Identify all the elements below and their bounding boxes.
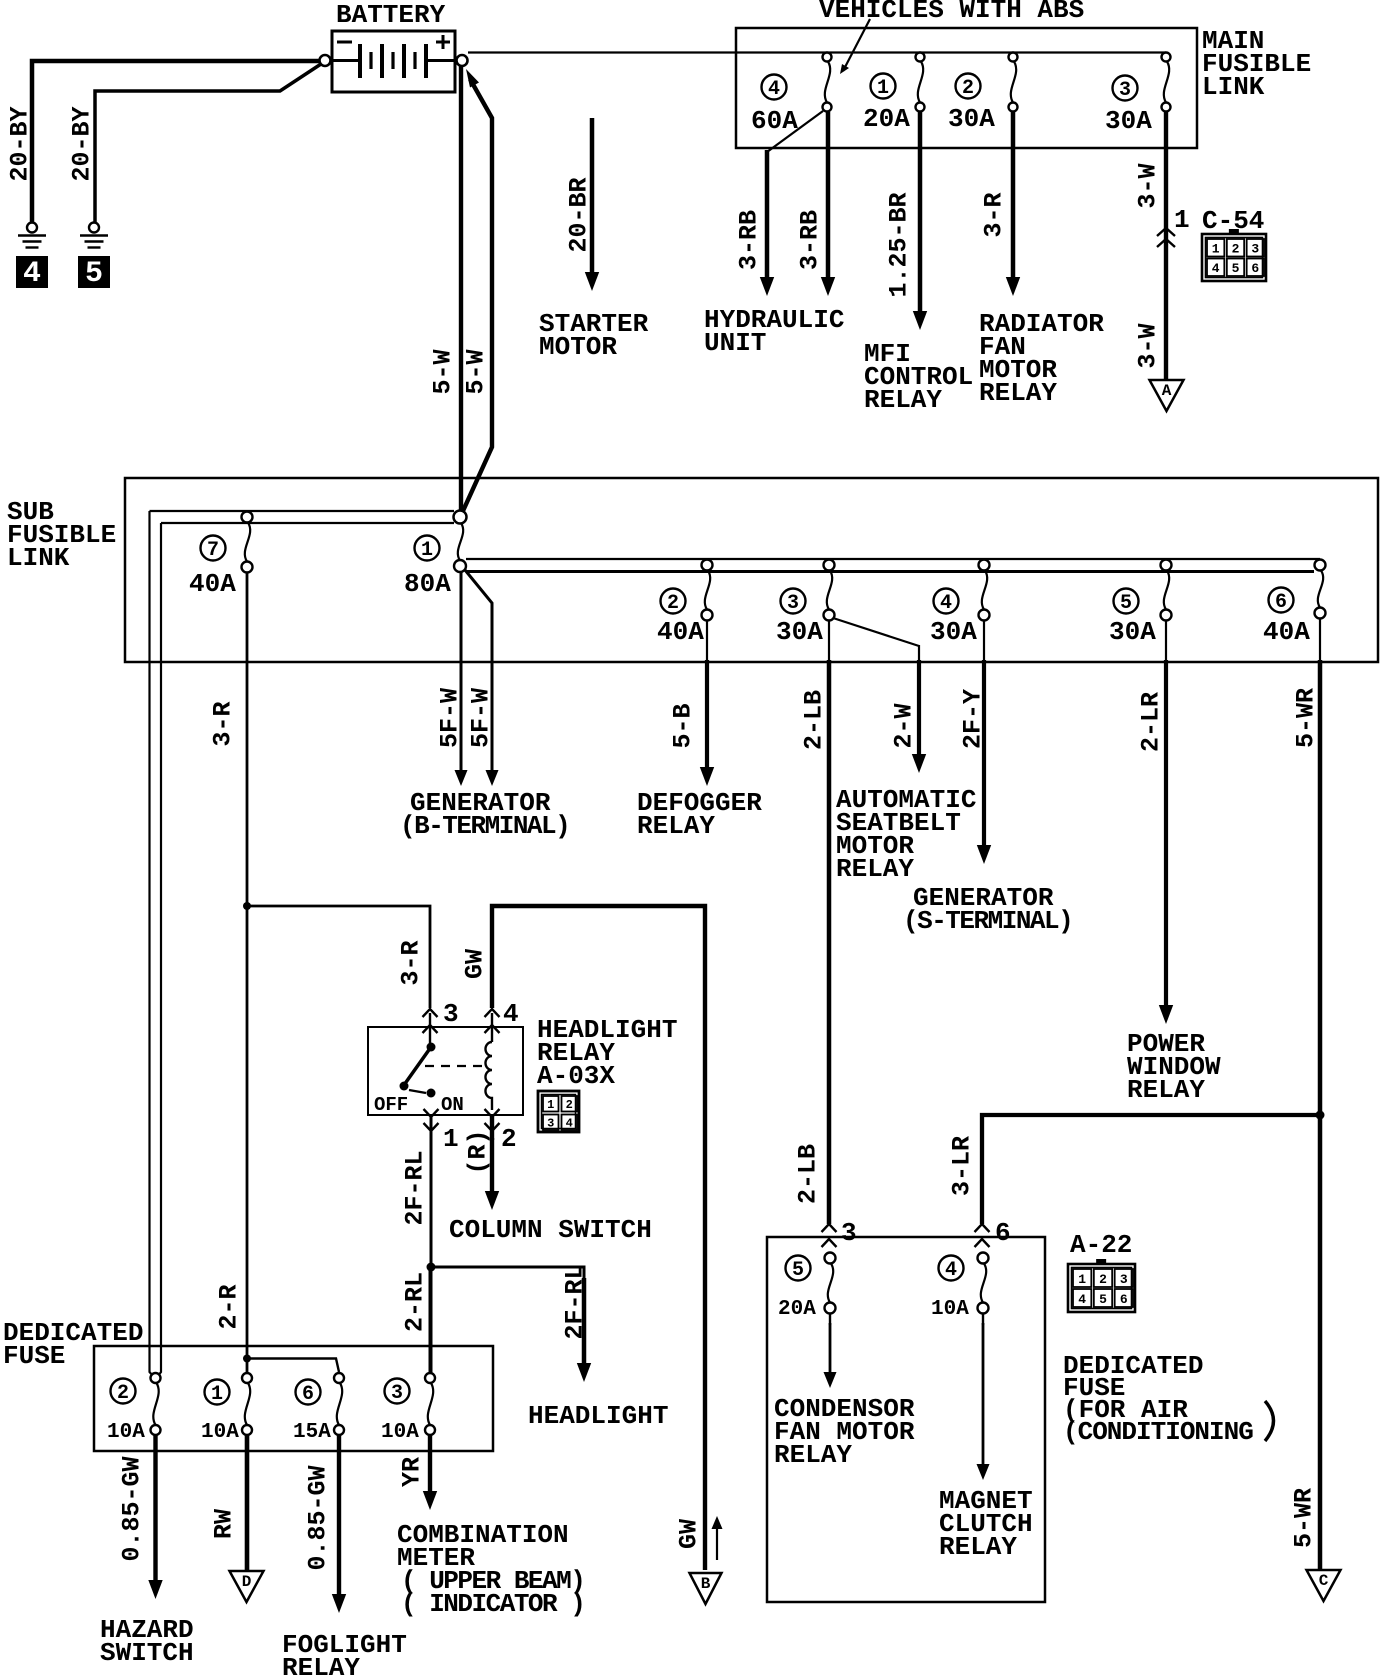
wire 20-BY negative lead 2 [95, 64, 321, 222]
wire 5-W (1) [459, 66, 463, 511]
arrowhead at battery positive [466, 69, 479, 88]
label 3-LR [947, 1136, 976, 1196]
connector C-54 [1229, 229, 1239, 235]
svg-text:RELAY: RELAY [774, 1440, 852, 1470]
fuse F3 number [1113, 76, 1138, 101]
junction circle at fuse S1 [454, 511, 467, 524]
svg-text:3-R: 3-R [979, 192, 1008, 237]
svg-text:5-W: 5-W [428, 349, 457, 394]
svg-text:40A: 40A [1263, 617, 1310, 647]
svg-text:( INDICATOR ): ( INDICATOR ) [401, 1589, 584, 1619]
svg-text:2: 2 [117, 1382, 129, 1405]
rail sub upper [466, 558, 1320, 560]
pin 3 chevron 2 [423, 1025, 438, 1033]
svg-text:4: 4 [768, 78, 780, 101]
battery positive terminal [457, 55, 468, 66]
svg-text:2-R: 2-R [214, 1284, 243, 1329]
svg-text:30A: 30A [776, 617, 823, 647]
svg-text:0.85-GW: 0.85-GW [303, 1465, 332, 1570]
fuse F2 main 30A [1009, 53, 1018, 62]
wire feeder to fuse D6 [247, 1359, 339, 1373]
svg-text:BATTERY: BATTERY [336, 0, 446, 30]
svg-text:RELAY: RELAY [1127, 1075, 1205, 1105]
svg-text:RELAY: RELAY [939, 1532, 1017, 1562]
pointer line vehicles-with-abs [843, 19, 870, 71]
svg-text:3-RB: 3-RB [734, 210, 763, 270]
svg-text:RW: RW [209, 1509, 238, 1539]
dashed actuator line [425, 1065, 483, 1067]
pin 3 chevron [423, 1009, 438, 1017]
label 3-R (sub) [208, 701, 237, 746]
svg-text:OFF: OFF [374, 1094, 408, 1116]
svg-text:3: 3 [787, 592, 799, 615]
svg-text:5: 5 [1099, 1292, 1107, 1307]
svg-text:COLUMN SWITCH: COLUMN SWITCH [449, 1215, 652, 1245]
svg-text:3: 3 [443, 999, 459, 1029]
switch contact upper [427, 1043, 436, 1052]
svg-text:(B-TERMINAL): (B-TERMINAL) [400, 811, 569, 841]
svg-text:3: 3 [391, 1382, 403, 1405]
svg-text:4: 4 [945, 1259, 957, 1282]
pin 3 chevron ac [822, 1224, 837, 1232]
svg-text:3: 3 [1119, 79, 1131, 102]
label 0.85-GW (1) [117, 1456, 146, 1561]
wire to magnet clutch relay [982, 1313, 984, 1325]
svg-text:5: 5 [792, 1259, 804, 1282]
fuse S3 number [781, 589, 806, 614]
wire 2-LR to power window relay [1165, 620, 1167, 662]
svg-text:6: 6 [995, 1218, 1011, 1248]
label 5-WR (lower) [1289, 1488, 1318, 1548]
fuse S6 40A [1315, 560, 1326, 571]
wire 5-W (2) [463, 79, 493, 512]
label 20-BY (1) [5, 106, 34, 181]
svg-text:D: D [242, 1573, 252, 1591]
wire 2-W diagonal [833, 618, 919, 646]
label 3-R (main) [979, 192, 1008, 237]
svg-text:20-BY: 20-BY [67, 106, 96, 181]
label 3-RB (2) [795, 210, 824, 270]
svg-text:10A: 10A [931, 1298, 969, 1321]
svg-text:1: 1 [211, 1383, 223, 1406]
fuse A4 number [939, 1256, 964, 1281]
wire 20-BY negative lead 1 [32, 61, 320, 222]
svg-text:4: 4 [940, 592, 952, 615]
svg-text:1: 1 [547, 1098, 554, 1112]
svg-text:2: 2 [667, 592, 679, 615]
fuse S7 number [201, 536, 226, 561]
connector A-22 [1096, 1259, 1106, 1265]
svg-text:5F-W: 5F-W [435, 688, 464, 748]
label 5F-W (2) [466, 688, 495, 748]
svg-text:MOTOR: MOTOR [539, 332, 617, 362]
connector A triangle [1150, 380, 1184, 411]
wire 2F-RL to headlight [431, 1267, 585, 1280]
fuse A4 10A [978, 1253, 989, 1264]
junction dot 5-WR/3-LR [1316, 1111, 1325, 1120]
svg-text:YR: YR [397, 1457, 426, 1487]
label 3-W (lower) [1133, 323, 1162, 368]
big closing paren [1265, 1401, 1274, 1441]
wire 3-R from fuse S7 [246, 572, 249, 903]
svg-text:30A: 30A [1109, 617, 1156, 647]
svg-text:60A: 60A [751, 106, 798, 136]
svg-text:10A: 10A [381, 1421, 419, 1444]
label (R) [463, 1129, 492, 1174]
svg-text:2: 2 [1099, 1272, 1107, 1287]
wire 2-R to dedicated fuse 1 [246, 906, 249, 1374]
fuse S7 40A [242, 512, 253, 523]
relay coil [485, 1042, 492, 1110]
svg-text:RELAY: RELAY [637, 811, 715, 841]
svg-text:RELAY: RELAY [282, 1653, 360, 1680]
junction dot 2-RL/2F-RL [427, 1263, 436, 1272]
svg-text:FUSE: FUSE [3, 1341, 65, 1371]
svg-text:4: 4 [1212, 261, 1220, 276]
label 2-R [214, 1284, 243, 1329]
label 2-LR [1136, 692, 1165, 752]
label 5-B [668, 703, 697, 748]
svg-text:30A: 30A [948, 104, 995, 134]
fuse S5 number [1114, 589, 1139, 614]
wire 2-W arrow [917, 660, 921, 757]
wire to condensor fan relay [829, 1313, 831, 1325]
svg-text:6: 6 [1275, 591, 1287, 614]
svg-text:2-LB: 2-LB [799, 690, 828, 750]
svg-text:A-22: A-22 [1070, 1230, 1132, 1260]
pin 4 chevron 2 [485, 1025, 500, 1033]
fuse S4 30A [979, 560, 990, 571]
wire 5F-W (2) [465, 570, 492, 690]
svg-text:20-BR: 20-BR [564, 177, 593, 252]
fuse F4 main 60A [823, 53, 832, 62]
fuse F2 number [956, 74, 981, 99]
fuse S2 number [661, 589, 686, 614]
label 3-W (upper) [1133, 163, 1162, 208]
rail upper-left (1) [150, 510, 455, 512]
svg-text:LINK: LINK [1202, 72, 1265, 102]
svg-text:1: 1 [1078, 1272, 1086, 1287]
wire 0.85-GW to foglight relay [337, 1435, 341, 1597]
junction dot 3-R/2-R [243, 902, 251, 910]
svg-text:0.85-GW: 0.85-GW [117, 1456, 146, 1561]
svg-text:(CONDITIONING: (CONDITIONING [1063, 1417, 1253, 1447]
dedicated fuse box [94, 1346, 493, 1451]
wire 5F-W (2) arrow [491, 688, 494, 773]
svg-text:2-LR: 2-LR [1136, 692, 1165, 752]
wire pin2 (R) column switch [490, 1115, 494, 1140]
wire battery to main fusible link [468, 51, 1166, 53]
label 3-RB (1) [734, 210, 763, 270]
svg-text:30A: 30A [1105, 106, 1152, 136]
svg-text:15A: 15A [293, 1421, 331, 1444]
label 5F-W (1) [435, 688, 464, 748]
svg-text:GW: GW [674, 1519, 703, 1549]
svg-text:2F-RL: 2F-RL [400, 1150, 429, 1225]
direction arrow at node B [716, 1526, 718, 1560]
fuse S3 30A [824, 560, 835, 571]
svg-text:3: 3 [547, 1117, 554, 1131]
junction dot feeder fuse 6 [243, 1355, 251, 1363]
label 0.85-GW (2) [303, 1465, 332, 1570]
label 2F-Y [958, 689, 987, 749]
battery BT1 [332, 31, 455, 92]
svg-text:2-RL: 2-RL [400, 1272, 429, 1332]
battery negative terminal [320, 55, 331, 66]
label 1.25-BR [884, 192, 913, 297]
svg-text:2-LB: 2-LB [793, 1144, 822, 1204]
fuse D2 10A [151, 1373, 161, 1383]
wire 20-BR to starter motor [590, 118, 595, 275]
svg-text:(R): (R) [463, 1129, 492, 1174]
switch arm [404, 1047, 431, 1085]
label 2-RL [400, 1272, 429, 1332]
wire pin1 2F-RL [430, 1115, 433, 1267]
svg-text:10A: 10A [201, 1421, 239, 1444]
fuse F4 number [762, 75, 787, 100]
sub fusible link box [125, 478, 1378, 662]
wire 5-WR [1319, 618, 1321, 662]
svg-text:3: 3 [841, 1218, 857, 1248]
svg-text:UNIT: UNIT [704, 328, 766, 358]
svg-text:3-W: 3-W [1133, 163, 1162, 208]
wire pin4 stub [491, 1013, 493, 1042]
wire RW to connector D [245, 1435, 250, 1571]
svg-text:RELAY: RELAY [979, 378, 1057, 408]
label GW (relay) [460, 949, 489, 979]
svg-text:A: A [1162, 382, 1172, 400]
svg-text:2F-Y: 2F-Y [958, 689, 987, 749]
fuse S4 number [934, 589, 959, 614]
fuse S1 80A [458, 523, 463, 561]
fuse F1 number [871, 74, 896, 99]
svg-text:4: 4 [566, 1117, 573, 1131]
label 2-LB (lower) [793, 1144, 822, 1204]
svg-text:3-R: 3-R [208, 701, 237, 746]
svg-text:4: 4 [503, 999, 519, 1029]
svg-text:C: C [1319, 1572, 1329, 1590]
fuse F1 main 20A [916, 53, 925, 62]
svg-text:2: 2 [1232, 242, 1240, 257]
wire 3-W to connector A [1164, 112, 1168, 380]
wire 5F-W (1) [460, 572, 463, 690]
label 20-BR [564, 177, 593, 252]
wire YR to combination meter [428, 1435, 432, 1494]
svg-text:20A: 20A [863, 104, 910, 134]
label YR [397, 1457, 426, 1487]
wire 2-RL to dedicated fuse 3 [429, 1267, 433, 1374]
svg-text:5F-W: 5F-W [466, 688, 495, 748]
pin 4 chevron [485, 1009, 500, 1017]
label 2F-RL (lower) [560, 1264, 589, 1339]
svg-text:20-BY: 20-BY [5, 106, 34, 181]
label 2F-RL (pin1) [400, 1150, 429, 1225]
label 3-R (relay) [396, 940, 425, 985]
fuse A5 number [786, 1256, 811, 1281]
wire 0.85-GW to hazard switch [153, 1435, 157, 1583]
ground G4 [27, 223, 37, 233]
svg-text:5-B: 5-B [668, 703, 697, 748]
fuse D1 number [205, 1380, 230, 1405]
wire 2-LB long [828, 620, 830, 662]
svg-text:2: 2 [962, 77, 974, 100]
wire 3-RB (1) to hydraulic unit [767, 111, 823, 152]
svg-text:LINK: LINK [7, 543, 70, 573]
pin 2 chevron [485, 1109, 500, 1117]
svg-text:3-W: 3-W [1133, 323, 1162, 368]
svg-text:1: 1 [1174, 205, 1190, 235]
svg-text:3-R: 3-R [396, 940, 425, 985]
svg-text:5-W: 5-W [461, 349, 490, 394]
wire 2F-Y to generator s-terminal [983, 620, 985, 662]
svg-text:VEHICLES WITH ABS: VEHICLES WITH ABS [819, 0, 1084, 25]
fuse S2 40A [702, 560, 713, 571]
svg-text:6: 6 [302, 1383, 314, 1406]
label 5-W (1) [428, 349, 457, 394]
svg-text:ON: ON [441, 1094, 464, 1116]
connector C triangle [1307, 1570, 1341, 1601]
wire 3-RB (2) [826, 112, 831, 280]
svg-text:SWITCH: SWITCH [100, 1638, 194, 1668]
svg-text:GW: GW [460, 949, 489, 979]
headlight relay box [368, 1027, 523, 1115]
rail upper-left (2) [161, 522, 454, 524]
wire GW relay pin4 to node B [492, 906, 705, 1570]
svg-text:3: 3 [1251, 242, 1259, 257]
svg-text:1.25-BR: 1.25-BR [884, 192, 913, 297]
label GW (lower) [674, 1519, 703, 1549]
fuse D3 10A [425, 1373, 435, 1383]
ac dedicated fuse box [767, 1237, 1045, 1602]
label RW [209, 1509, 238, 1539]
rail sub lower [466, 570, 1314, 573]
connector B triangle [690, 1573, 722, 1604]
svg-text:5: 5 [1232, 261, 1240, 276]
fuse D2 number [111, 1379, 136, 1404]
svg-text:1: 1 [1212, 242, 1220, 257]
wire 5F-W (1) arrow [460, 688, 463, 773]
svg-text:30A: 30A [930, 617, 977, 647]
wire pin3 stub [429, 1013, 431, 1044]
fuse S1 number [415, 536, 440, 561]
svg-text:(S-TERMINAL): (S-TERMINAL) [903, 906, 1072, 936]
label 5-W (2) [461, 349, 490, 394]
svg-text:2F-RL: 2F-RL [560, 1264, 589, 1339]
svg-text:RELAY: RELAY [836, 854, 914, 884]
label 2-LB (upper) [799, 690, 828, 750]
svg-text:1: 1 [443, 1124, 459, 1154]
label 20-BY (2) [67, 106, 96, 181]
fuse S6 number [1269, 588, 1294, 613]
svg-text:1: 1 [877, 77, 889, 100]
wire left feeder (2) [158, 523, 161, 1376]
fuse D3 number [385, 1379, 410, 1404]
svg-text:10A: 10A [107, 1421, 145, 1444]
connector chevrons on 3-W [1157, 228, 1175, 236]
switch contact lower [427, 1089, 436, 1098]
label 5-WR (upper) [1291, 688, 1320, 748]
wire 3-LR [982, 1115, 1320, 1224]
svg-text:3: 3 [1120, 1272, 1128, 1287]
svg-text:6: 6 [1251, 261, 1259, 276]
ground G5 [89, 223, 99, 233]
fuse D1 10A [242, 1373, 252, 1383]
svg-text:3-LR: 3-LR [947, 1136, 976, 1196]
svg-text:5: 5 [1120, 592, 1132, 615]
svg-text:B: B [701, 1575, 711, 1593]
main fusible link box [736, 28, 1197, 148]
svg-text:2-W: 2-W [889, 703, 918, 748]
pin 6 chevron ac [975, 1224, 990, 1232]
fuse S5 30A [1161, 560, 1172, 571]
wire 5-B to defogger relay [706, 620, 708, 662]
svg-text:20A: 20A [778, 1298, 816, 1321]
svg-text:A-03X: A-03X [537, 1061, 615, 1091]
fuse D6 15A [334, 1373, 344, 1383]
wire left feeder (1) [150, 511, 154, 1376]
svg-text:40A: 40A [657, 617, 704, 647]
pin 1 chevron 2 [424, 1123, 439, 1131]
svg-text:3-RB: 3-RB [795, 210, 824, 270]
svg-text:RELAY: RELAY [864, 385, 942, 415]
svg-text:2: 2 [501, 1124, 517, 1154]
svg-text:4: 4 [1078, 1292, 1086, 1307]
svg-text:4: 4 [23, 257, 41, 291]
pin 1 chevron [424, 1109, 439, 1117]
fuse D6 number [296, 1380, 321, 1405]
svg-text:1: 1 [421, 539, 433, 562]
fuse F3 main 30A [1162, 53, 1171, 62]
svg-text:5-WR: 5-WR [1289, 1488, 1318, 1548]
svg-text:7: 7 [207, 539, 219, 562]
wire 3-R to relay pin 3 [247, 906, 430, 1008]
wire 3-R to radiator fan motor relay [1011, 112, 1016, 280]
svg-text:HEADLIGHT: HEADLIGHT [528, 1401, 668, 1431]
svg-text:5-WR: 5-WR [1291, 688, 1320, 748]
connector D triangle [230, 1571, 264, 1602]
svg-text:80A: 80A [404, 569, 451, 599]
svg-text:40A: 40A [189, 569, 236, 599]
wire 1.25-BR to MFI control relay [918, 112, 923, 314]
label 2-W [889, 703, 918, 748]
svg-text:6: 6 [1120, 1292, 1128, 1307]
pin 2 chevron 2 [485, 1123, 500, 1131]
fuse A5 20A [825, 1253, 836, 1264]
relay connector A-03X pins [538, 1091, 579, 1132]
svg-text:5: 5 [85, 257, 103, 291]
svg-text:2: 2 [566, 1098, 573, 1112]
